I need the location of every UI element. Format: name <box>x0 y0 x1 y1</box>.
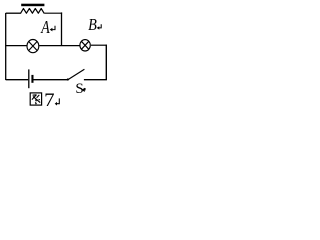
wire: bottom edge left, to battery <box>6 79 29 81</box>
lamp B (circle with cross) <box>80 40 90 51</box>
switch S hinge contact <box>67 78 69 80</box>
svg-text:S: S <box>75 81 83 97</box>
wire: middle wire lamp A to node junction to lamp B <box>39 45 79 47</box>
svg-text:B: B <box>88 16 97 34</box>
battery long plate (positive) <box>28 69 30 88</box>
caption character 图 (figure) : outer box <box>30 93 41 105</box>
wire: bottom edge switch to right corner <box>84 79 107 81</box>
paragraph mark after S <box>82 88 85 91</box>
battery short plate (negative) <box>31 75 33 83</box>
svg-text:A: A <box>40 18 49 37</box>
paragraph mark after A <box>50 26 55 32</box>
wire: top edge right of coil <box>44 12 62 14</box>
svg-text:7: 7 <box>44 90 54 111</box>
paragraph mark after B <box>97 24 102 29</box>
lamp A (circle with cross) <box>27 40 39 53</box>
switch S blade (open) <box>68 69 85 80</box>
wire: right edge <box>105 45 107 80</box>
wire: middle wire left edge to lamp A <box>5 45 27 47</box>
wire: bottom edge battery to switch <box>33 79 67 81</box>
paragraph mark after 7 <box>55 98 60 105</box>
wire: top edge left of coil <box>6 12 21 14</box>
inductor coil L (electromagnet winding) <box>21 9 45 14</box>
wire: middle wire lamp B to right edge <box>91 44 107 46</box>
wire: left edge <box>5 13 7 80</box>
inductor iron core bar <box>21 4 44 6</box>
wire: vertical branch from top edge to middle node <box>61 12 63 45</box>
